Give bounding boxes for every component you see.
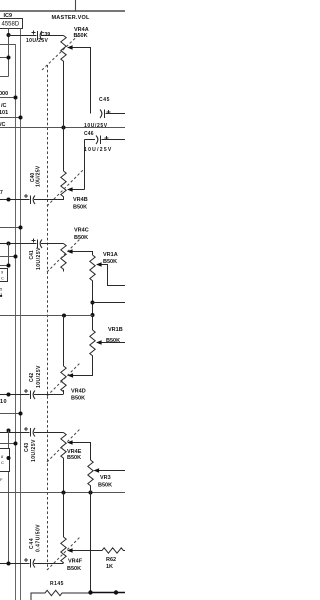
svg-text:C46: C46 xyxy=(84,131,94,137)
svg-text:B50K: B50K xyxy=(74,33,88,39)
gang dash diagonal VR4A xyxy=(42,36,78,71)
svg-text:000: 000 xyxy=(0,91,8,97)
svg-text:C: C xyxy=(1,460,4,465)
wire stub xyxy=(0,265,9,267)
long wire C xyxy=(0,492,125,494)
potentiometer VR4E xyxy=(61,433,66,459)
gang dash diagonal VR4F xyxy=(47,537,80,570)
svg-text:C45: C45 xyxy=(99,97,110,103)
wire stub xyxy=(0,443,16,445)
long wire B xyxy=(0,315,93,317)
gang dash trunk xyxy=(47,65,49,570)
svg-text:VR4E: VR4E xyxy=(67,449,82,455)
gang dash diagonal VR4B xyxy=(47,169,84,206)
svg-text:B50K: B50K xyxy=(73,205,87,211)
connector box xyxy=(0,449,10,472)
top border wire xyxy=(0,10,125,12)
capacitor C43 xyxy=(0,427,64,437)
capacitor C46 xyxy=(85,136,126,190)
svg-text:C39: C39 xyxy=(41,32,50,38)
svg-text:IC9: IC9 xyxy=(4,13,13,19)
svg-text:10U/25V: 10U/25V xyxy=(36,365,42,388)
bottom wire xyxy=(91,592,126,594)
resistor R145 xyxy=(31,590,90,600)
svg-text:10U/25V: 10U/25V xyxy=(26,38,49,44)
svg-text:VR4F: VR4F xyxy=(68,559,83,565)
potentiometer VR4D xyxy=(63,316,65,367)
potentiometer VR1A xyxy=(90,255,95,283)
svg-text:/C: /C xyxy=(0,122,6,128)
gang dash diagonal VR4E xyxy=(47,429,80,462)
svg-text:0.47U/50V: 0.47U/50V xyxy=(36,524,42,552)
svg-text:/C: /C xyxy=(1,103,7,109)
wire stub xyxy=(0,413,21,415)
svg-text:VR4B: VR4B xyxy=(73,197,88,203)
wire stub xyxy=(0,117,21,119)
wire xyxy=(0,57,9,59)
capacitor C41 xyxy=(0,239,64,249)
svg-text:101: 101 xyxy=(0,110,8,116)
svg-text:10U/25V: 10U/25V xyxy=(31,439,37,462)
svg-text:10U/25V: 10U/25V xyxy=(84,147,113,153)
svg-text:10: 10 xyxy=(0,399,7,405)
svg-text:B50K: B50K xyxy=(67,455,81,461)
bus 15.5 xyxy=(15,44,17,600)
svg-text:C: C xyxy=(1,276,4,281)
potentiometer VR4B xyxy=(63,62,65,171)
potentiometer VR4F xyxy=(63,493,65,538)
node xyxy=(7,33,11,37)
wire xyxy=(0,76,9,78)
capacitor C40 xyxy=(0,194,64,204)
svg-text:4558D: 4558D xyxy=(2,22,20,28)
svg-text:B50K: B50K xyxy=(98,483,112,489)
wire stub xyxy=(0,256,16,258)
svg-text:10U/25V: 10U/25V xyxy=(35,165,41,187)
gang dash diagonal VR4C xyxy=(47,239,80,272)
svg-text:VR4C: VR4C xyxy=(74,228,89,234)
wire VR1A-VR1B xyxy=(92,283,94,330)
resistor R62 xyxy=(91,548,126,553)
svg-text:B50K: B50K xyxy=(74,235,88,241)
potentiometer VR3 xyxy=(88,460,93,487)
capacitor C39 xyxy=(9,31,64,41)
long wire A xyxy=(0,127,125,129)
wire stub xyxy=(0,97,16,99)
svg-text:VR3: VR3 xyxy=(100,475,111,481)
svg-text:VR1B: VR1B xyxy=(108,327,123,333)
svg-text:VR4A: VR4A xyxy=(74,27,89,33)
svg-text:VR4D: VR4D xyxy=(71,389,86,395)
svg-text:1K: 1K xyxy=(106,564,113,570)
wire stub xyxy=(0,227,21,229)
wire xyxy=(0,44,16,46)
svg-text:C41: C41 xyxy=(29,250,35,259)
svg-text:B50K: B50K xyxy=(71,396,85,402)
svg-text:10U/25V: 10U/25V xyxy=(84,123,108,129)
svg-text:VR1A: VR1A xyxy=(103,252,118,258)
svg-text:B50K: B50K xyxy=(103,259,117,265)
wire IC pin column xyxy=(8,29,10,77)
svg-text:R62: R62 xyxy=(106,557,116,563)
svg-text:7: 7 xyxy=(0,190,3,196)
node xyxy=(7,56,11,60)
op-amp IC9 4558D box xyxy=(0,19,23,29)
svg-text:10U/25V: 10U/25V xyxy=(36,247,42,270)
capacitor C42 xyxy=(0,389,64,399)
TEXT LAYER xyxy=(0,13,123,587)
bus 21 xyxy=(20,29,22,600)
node xyxy=(62,126,66,130)
svg-text:C43: C43 xyxy=(24,443,30,452)
wire xyxy=(75,0,77,11)
svg-text:MASTER.VOL: MASTER.VOL xyxy=(52,15,90,21)
connector box xyxy=(0,269,8,282)
potentiometer VR4A xyxy=(61,36,66,63)
svg-text:B50K: B50K xyxy=(67,566,81,572)
potentiometer VR4C xyxy=(61,244,66,272)
svg-text:R145: R145 xyxy=(50,581,64,587)
gang dash diagonal VR4D xyxy=(47,363,80,396)
svg-text:B50K: B50K xyxy=(106,338,120,344)
svg-text:C42: C42 xyxy=(29,373,35,382)
capacitor C44 xyxy=(0,558,64,568)
svg-text:C44: C44 xyxy=(29,538,35,549)
capacitor C45 xyxy=(100,110,125,119)
potentiometer VR1B xyxy=(90,330,95,360)
